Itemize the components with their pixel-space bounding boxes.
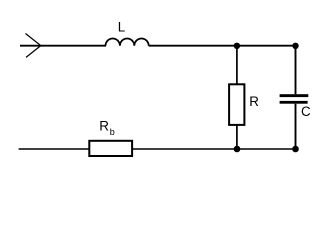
- svg-text:C: C: [301, 104, 311, 119]
- capacitor C: [280, 94, 309, 104]
- node: top junction at R branch: [234, 43, 240, 49]
- wire: bottom horizontal segment to right corner: [132, 148, 295, 150]
- svg-text:b: b: [110, 127, 115, 137]
- wire: C branch lower vertical: [295, 104, 297, 149]
- inductor L: [106, 39, 149, 46]
- wire: C branch upper vertical: [295, 46, 297, 94]
- node: bottom junction at R branch: [234, 146, 241, 153]
- label Rb: [99, 119, 115, 138]
- wire: bottom-left horizontal segment: [19, 148, 90, 150]
- svg-text:R: R: [249, 94, 259, 109]
- wire: R branch upper vertical: [236, 46, 238, 85]
- svg-text:R: R: [99, 119, 109, 134]
- wire: top horizontal segment to right corner: [149, 45, 296, 47]
- wire: top-left horizontal segment: [20, 45, 106, 47]
- node: bottom-right corner junction: [292, 146, 299, 153]
- resistor R: [229, 84, 244, 125]
- node: top-right corner junction: [292, 43, 298, 49]
- wire: R branch lower vertical: [236, 125, 238, 149]
- resistor Rb: [89, 141, 132, 156]
- input arrow: [26, 34, 41, 58]
- svg-text:L: L: [118, 20, 125, 35]
